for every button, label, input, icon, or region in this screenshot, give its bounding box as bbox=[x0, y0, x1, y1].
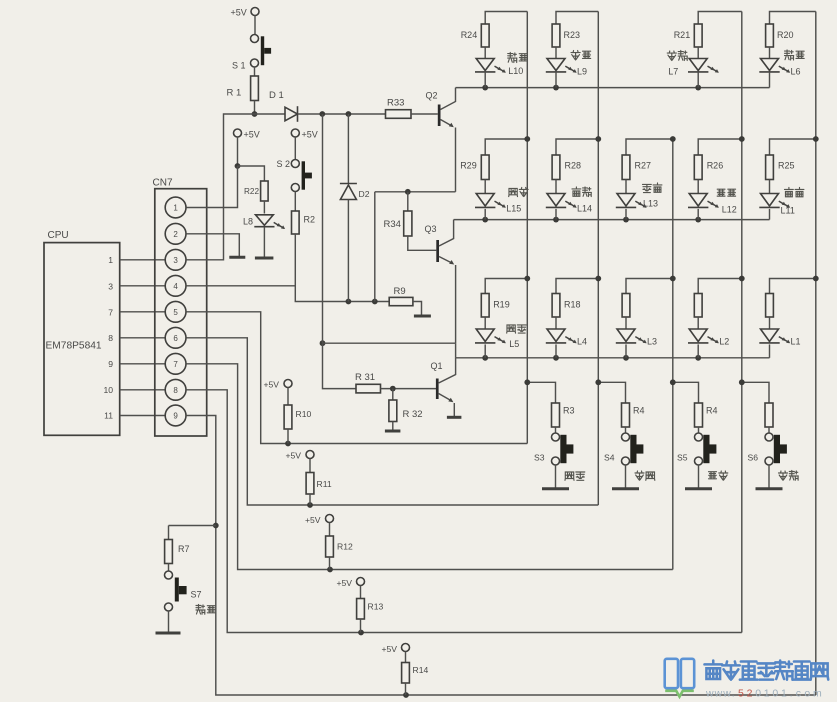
svg-text:1: 1 bbox=[781, 688, 787, 700]
svg-text:w: w bbox=[722, 688, 731, 700]
wire bbox=[413, 302, 422, 316]
resistor R19 bbox=[481, 294, 509, 318]
wire bbox=[697, 209, 699, 220]
svg-text:1: 1 bbox=[108, 255, 113, 265]
resistor R29 bbox=[460, 155, 489, 180]
svg-text:L3: L3 bbox=[647, 337, 657, 347]
svg-text:R23: R23 bbox=[564, 30, 581, 40]
node R1/D1/S1 junction bbox=[252, 111, 258, 117]
resistor R2 bbox=[292, 211, 316, 234]
wire Q3 emitter bbox=[439, 257, 456, 344]
wire bbox=[374, 192, 376, 302]
svg-text:4: 4 bbox=[173, 282, 178, 291]
ground (S3) bbox=[542, 487, 569, 490]
resistor R23 bbox=[552, 24, 580, 47]
LED L13 bbox=[616, 183, 662, 209]
svg-text:9: 9 bbox=[108, 359, 113, 369]
svg-text:R9: R9 bbox=[394, 286, 406, 297]
wire bbox=[697, 317, 699, 329]
svg-text:R34: R34 bbox=[384, 219, 401, 230]
wire LED row 2 cathode line bbox=[454, 217, 770, 223]
ground (S7) bbox=[156, 632, 181, 635]
svg-text:L15: L15 bbox=[506, 204, 521, 214]
resistor R3 bbox=[552, 403, 575, 427]
wire bbox=[555, 317, 557, 329]
wire column rail 1 bbox=[526, 12, 528, 444]
svg-text:w: w bbox=[705, 688, 714, 700]
wire bbox=[484, 47, 486, 59]
resistor R key 4 bbox=[765, 403, 773, 427]
resistor R7 bbox=[165, 526, 190, 564]
wire bbox=[625, 427, 627, 433]
power +5V (L8 branch) bbox=[234, 129, 260, 140]
svg-text:+5V: +5V bbox=[302, 130, 318, 140]
svg-text:R28: R28 bbox=[565, 161, 582, 171]
svg-text:L8: L8 bbox=[243, 217, 253, 227]
LED L9 bbox=[546, 51, 591, 77]
svg-text:R13: R13 bbox=[368, 602, 384, 612]
label 温低 bbox=[565, 472, 585, 480]
wire bbox=[485, 136, 530, 155]
wire bbox=[237, 137, 239, 166]
LED L14 bbox=[546, 187, 592, 214]
svg-text:S5: S5 bbox=[677, 453, 688, 463]
wire pin4/S2/R9 net bbox=[186, 234, 389, 304]
wire bbox=[294, 192, 296, 212]
wire bbox=[485, 276, 530, 294]
svg-text:R19: R19 bbox=[493, 300, 510, 310]
wire bbox=[484, 72, 486, 88]
wire bbox=[392, 422, 394, 431]
svg-text:S6: S6 bbox=[748, 453, 759, 463]
wire D1 cathode line bbox=[298, 111, 386, 117]
resistor R12 bbox=[305, 515, 353, 570]
resistor R10 bbox=[264, 380, 312, 444]
wire bbox=[698, 276, 744, 294]
svg-text:CN7: CN7 bbox=[153, 178, 173, 189]
wire bbox=[697, 344, 699, 357]
wire Q2 collector bbox=[441, 88, 456, 110]
svg-text:L11: L11 bbox=[781, 206, 795, 216]
svg-text:R25: R25 bbox=[778, 161, 795, 171]
svg-text:.: . bbox=[790, 688, 793, 700]
wire Q2 emitter bbox=[441, 120, 456, 192]
wire bbox=[555, 465, 557, 488]
ground (S6) bbox=[756, 487, 783, 490]
svg-text:+5V: +5V bbox=[337, 578, 353, 588]
LED L15 bbox=[475, 187, 528, 213]
wire CPU pins to CN7 bbox=[120, 260, 166, 416]
svg-text:6: 6 bbox=[173, 334, 178, 343]
wire bbox=[697, 180, 699, 194]
svg-text:S 2: S 2 bbox=[277, 159, 291, 169]
wire bbox=[555, 427, 557, 433]
wire Q1 emitter bbox=[439, 394, 455, 417]
svg-text:7: 7 bbox=[173, 360, 178, 369]
wire bbox=[768, 427, 770, 433]
svg-text:Q3: Q3 bbox=[425, 224, 437, 234]
ground (R9) bbox=[414, 315, 431, 318]
svg-text:R 1: R 1 bbox=[227, 88, 242, 99]
svg-text:R24: R24 bbox=[461, 30, 478, 40]
svg-text:3: 3 bbox=[173, 256, 178, 265]
wire bbox=[524, 379, 555, 403]
svg-text:+5V: +5V bbox=[305, 515, 321, 525]
svg-text:5: 5 bbox=[738, 688, 744, 700]
wire bbox=[770, 12, 816, 25]
ground (L8) bbox=[255, 257, 274, 260]
connector CN7 bbox=[153, 178, 207, 437]
wire pin2 to ground bbox=[186, 234, 239, 257]
wire bbox=[555, 72, 557, 88]
wire bbox=[625, 344, 627, 357]
wire key line to pin3 bbox=[186, 114, 285, 260]
wire bbox=[294, 137, 296, 160]
wire bbox=[625, 209, 627, 220]
wire bbox=[698, 136, 744, 155]
svg-text:1: 1 bbox=[764, 688, 770, 700]
wire bbox=[698, 12, 742, 25]
svg-text:R20: R20 bbox=[777, 30, 794, 40]
wire pin9 bus E bbox=[186, 416, 816, 698]
wire bbox=[168, 564, 170, 572]
power +5V (S2) bbox=[291, 129, 317, 140]
svg-text:Q2: Q2 bbox=[426, 91, 438, 101]
wire bbox=[254, 16, 256, 35]
svg-text:+5V: +5V bbox=[231, 8, 247, 18]
svg-text:S 1: S 1 bbox=[232, 61, 246, 71]
svg-text:5: 5 bbox=[173, 308, 178, 317]
transistor Q3 bbox=[425, 224, 440, 262]
svg-text:R2: R2 bbox=[304, 215, 316, 225]
wire bbox=[698, 427, 700, 433]
svg-text:+5V: +5V bbox=[382, 644, 398, 654]
wire bbox=[254, 67, 256, 76]
wire bbox=[595, 379, 625, 403]
ground (Q1) bbox=[447, 416, 462, 419]
LED L1 bbox=[759, 329, 800, 347]
wire LED row 3 cathode line bbox=[456, 355, 770, 361]
svg-text:7: 7 bbox=[108, 308, 113, 318]
svg-text:R27: R27 bbox=[635, 161, 652, 171]
svg-text:R3: R3 bbox=[563, 406, 575, 416]
svg-text:0: 0 bbox=[755, 688, 761, 700]
wire bbox=[625, 465, 627, 488]
CPU pin labels 1,3,7,8,9,10,11 bbox=[103, 255, 113, 421]
ground (S4) bbox=[612, 487, 639, 490]
resistor R31 bbox=[355, 372, 381, 393]
resistor R24 bbox=[461, 24, 489, 47]
svg-text:R33: R33 bbox=[387, 98, 404, 109]
switch S3 bbox=[534, 433, 573, 465]
wire bbox=[254, 101, 256, 115]
svg-text:2: 2 bbox=[173, 230, 178, 239]
svg-text:L7: L7 bbox=[668, 67, 678, 77]
wire LED row 1 cathode line bbox=[456, 85, 770, 91]
svg-text:8: 8 bbox=[173, 386, 178, 395]
diode D1 bbox=[269, 90, 298, 122]
wire bbox=[698, 465, 700, 488]
resistor R1 bbox=[227, 76, 259, 101]
svg-text:+5V: +5V bbox=[286, 451, 302, 461]
wire bbox=[769, 344, 771, 357]
wire pin8 bus D bbox=[186, 390, 742, 636]
svg-text:2: 2 bbox=[747, 688, 753, 700]
svg-text:L5: L5 bbox=[509, 339, 519, 349]
wire bbox=[168, 611, 170, 633]
wire bbox=[626, 276, 676, 294]
svg-text:EM78P5841: EM78P5841 bbox=[46, 341, 102, 352]
power +5V (S1) bbox=[231, 8, 260, 18]
wire Q1 collector bbox=[439, 358, 456, 383]
watermark text 家电维修资料网 bbox=[704, 661, 828, 680]
svg-text:R4: R4 bbox=[633, 406, 645, 416]
resistor R9 bbox=[389, 286, 413, 306]
ground (pin2) bbox=[229, 256, 245, 259]
svg-text:R29: R29 bbox=[460, 161, 477, 171]
LED L2 bbox=[688, 329, 729, 347]
ground (S5) bbox=[685, 487, 712, 490]
wire bbox=[347, 114, 349, 184]
svg-text:.: . bbox=[732, 688, 735, 700]
wire bbox=[769, 47, 771, 59]
resistor R28 bbox=[552, 155, 581, 180]
svg-text:8: 8 bbox=[108, 333, 113, 343]
label 功能 bbox=[709, 471, 728, 480]
resistor R row3 col5 bbox=[766, 294, 774, 318]
svg-text:c: c bbox=[796, 688, 801, 700]
wire column rail 3 bbox=[672, 139, 674, 570]
svg-text:S7: S7 bbox=[191, 590, 202, 600]
svg-text:11: 11 bbox=[104, 411, 113, 421]
LED L7 bbox=[667, 51, 719, 77]
wire bbox=[625, 180, 627, 194]
svg-text:L10: L10 bbox=[508, 66, 523, 76]
resistor R20 bbox=[766, 24, 794, 47]
wire bbox=[697, 47, 699, 59]
LED L4 bbox=[546, 329, 587, 347]
svg-text:3: 3 bbox=[108, 282, 113, 292]
wire pin7 bus C bbox=[186, 364, 673, 573]
wire bbox=[768, 465, 770, 488]
switch S1 bbox=[232, 35, 271, 71]
resistor R27 bbox=[622, 155, 651, 180]
LED L12 bbox=[688, 189, 737, 214]
resistor R33 bbox=[386, 98, 412, 119]
watermark url www.520101.com bbox=[705, 688, 822, 700]
wire bbox=[556, 12, 598, 25]
wire bbox=[169, 525, 216, 527]
resistor R22 bbox=[244, 181, 268, 201]
wire bbox=[770, 276, 819, 294]
ground (R32) bbox=[385, 430, 401, 433]
svg-text:R10: R10 bbox=[296, 409, 312, 419]
node +5V/R22/pin1 bbox=[235, 163, 241, 169]
wire column rail 2 bbox=[597, 12, 599, 506]
svg-text:S3: S3 bbox=[534, 453, 545, 463]
svg-text:1: 1 bbox=[173, 204, 178, 213]
wire pin1 to +5V bbox=[186, 166, 237, 208]
svg-text:Q1: Q1 bbox=[431, 361, 443, 371]
wire bbox=[263, 201, 265, 214]
svg-text:L14: L14 bbox=[577, 204, 592, 214]
diode D2 bbox=[340, 184, 370, 200]
wire bbox=[411, 113, 438, 115]
svg-text:9: 9 bbox=[173, 412, 178, 421]
wire bbox=[484, 180, 486, 194]
transistor Q2 bbox=[426, 91, 441, 127]
svg-text:D 1: D 1 bbox=[269, 90, 284, 101]
switch S2 bbox=[277, 159, 312, 192]
wire bbox=[555, 47, 557, 59]
resistor R32 bbox=[389, 389, 423, 422]
wire key line D1 to Q1 bbox=[322, 114, 324, 343]
LED L6 bbox=[759, 50, 804, 77]
svg-text:L12: L12 bbox=[722, 205, 737, 215]
svg-text:R21: R21 bbox=[674, 30, 691, 40]
svg-text:L6: L6 bbox=[791, 67, 801, 77]
svg-text:+5V: +5V bbox=[264, 380, 280, 390]
svg-text:L4: L4 bbox=[577, 337, 587, 347]
resistor R13 bbox=[337, 578, 384, 633]
switch S7 bbox=[165, 571, 202, 611]
label 爆炒 (S7) bbox=[196, 605, 215, 615]
svg-text:o: o bbox=[804, 688, 810, 700]
svg-text:L13: L13 bbox=[643, 199, 658, 209]
switch S4 bbox=[604, 433, 643, 465]
svg-text:R12: R12 bbox=[337, 542, 353, 552]
svg-text:L2: L2 bbox=[719, 337, 729, 347]
wire bbox=[670, 379, 699, 403]
wire bbox=[555, 209, 557, 220]
resistor R25 bbox=[766, 155, 795, 180]
LED L11 bbox=[759, 188, 804, 216]
wire bbox=[484, 209, 486, 220]
wire bbox=[555, 344, 557, 357]
svg-text:R11: R11 bbox=[317, 479, 332, 489]
wire bbox=[769, 180, 771, 194]
wire bbox=[485, 12, 527, 25]
LED L5 bbox=[475, 325, 526, 349]
wire bbox=[381, 386, 437, 392]
svg-text:10: 10 bbox=[103, 385, 113, 395]
wire bbox=[626, 136, 676, 155]
wire bbox=[323, 343, 456, 358]
wire bbox=[556, 136, 601, 155]
wire bbox=[323, 343, 357, 388]
label 火锅 bbox=[779, 471, 799, 481]
LED L10 bbox=[475, 53, 527, 77]
wire bbox=[697, 72, 699, 88]
svg-text:m: m bbox=[813, 688, 822, 700]
wire bbox=[556, 276, 601, 294]
wire bbox=[555, 180, 557, 194]
wire pin6 bus B bbox=[186, 338, 598, 508]
resistor R18 bbox=[552, 294, 580, 318]
label 调高 bbox=[635, 471, 655, 480]
wire Q3 collector bbox=[439, 220, 454, 246]
LED L3 bbox=[616, 329, 657, 347]
resistor R row3 col4 bbox=[694, 294, 702, 318]
svg-text:R22: R22 bbox=[244, 187, 259, 196]
wire bbox=[347, 200, 349, 302]
svg-text:R 32: R 32 bbox=[403, 409, 423, 420]
wire bbox=[770, 136, 819, 155]
svg-text:D2: D2 bbox=[359, 189, 370, 199]
svg-text:R26: R26 bbox=[707, 161, 724, 171]
svg-text:w: w bbox=[714, 688, 723, 700]
svg-text:R7: R7 bbox=[178, 544, 190, 554]
wire bbox=[484, 344, 486, 357]
svg-text:S4: S4 bbox=[604, 453, 615, 463]
switch S5 bbox=[677, 433, 716, 465]
svg-text:+5V: +5V bbox=[244, 130, 260, 140]
wire bbox=[484, 317, 486, 329]
CPU block U1 EM78P5841 bbox=[44, 230, 120, 435]
resistor R34 bbox=[384, 192, 412, 236]
resistor R4 bbox=[622, 403, 645, 427]
resistor R11 bbox=[286, 451, 332, 506]
node key/Q1 net bbox=[320, 340, 326, 346]
watermark logo (book icon) bbox=[665, 659, 695, 697]
wire bbox=[263, 227, 265, 257]
svg-text:L9: L9 bbox=[577, 67, 587, 77]
wire bbox=[408, 236, 437, 250]
resistor R row3 col3 bbox=[622, 294, 630, 318]
svg-text:R4: R4 bbox=[706, 406, 718, 416]
LED L8 bbox=[243, 215, 285, 229]
switch S6 bbox=[748, 433, 787, 465]
transistor Q1 bbox=[431, 361, 443, 399]
wire column rail 4 bbox=[741, 12, 743, 633]
wire bbox=[769, 209, 771, 220]
resistor R21 bbox=[674, 24, 702, 47]
wire bbox=[625, 317, 627, 329]
resistor R14 bbox=[382, 644, 429, 696]
resistor R26 bbox=[694, 155, 723, 180]
svg-text:R 31: R 31 bbox=[355, 372, 375, 383]
svg-text:R14: R14 bbox=[413, 665, 429, 675]
resistor R4 bbox=[695, 403, 718, 427]
wire column rail 5 bbox=[815, 12, 817, 696]
svg-text:CPU: CPU bbox=[48, 230, 69, 241]
wire bbox=[769, 72, 771, 88]
wire emitter bus bbox=[375, 189, 456, 195]
svg-text:R18: R18 bbox=[564, 300, 581, 310]
wire bbox=[739, 379, 769, 403]
svg-text:L1: L1 bbox=[791, 337, 801, 347]
svg-text:0: 0 bbox=[772, 688, 778, 700]
wire bbox=[238, 166, 265, 181]
wire pin5 bus A bbox=[186, 312, 527, 447]
wire bbox=[769, 317, 771, 329]
